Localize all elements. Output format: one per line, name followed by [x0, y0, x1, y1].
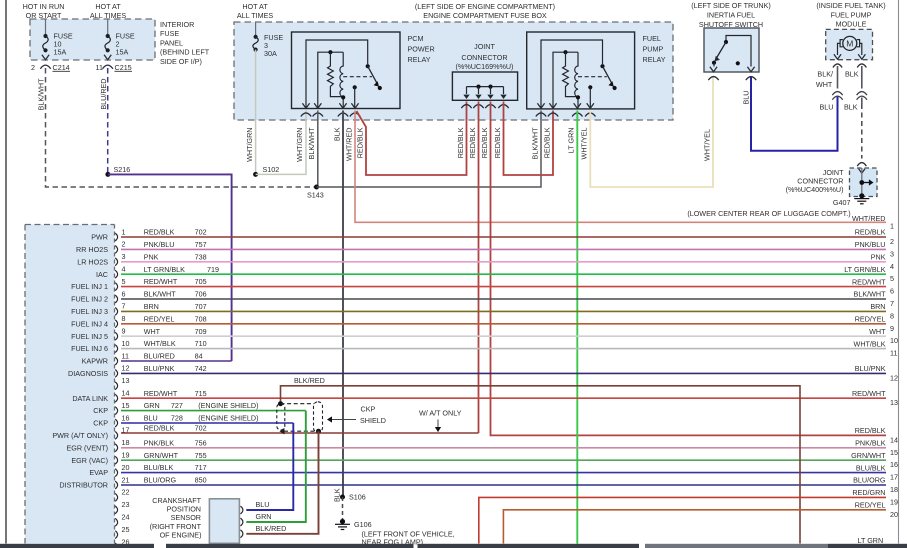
fuse 10 15A — [45, 20, 47, 37]
svg-text:CKP: CKP — [93, 406, 108, 415]
svg-text:CONNECTOR: CONNECTOR — [461, 53, 507, 62]
svg-text:WHT/RED: WHT/RED — [344, 128, 353, 162]
fuel pump motor M — [843, 36, 857, 50]
wire RED/WHT 705 PCM pin 5 — [121, 286, 886, 288]
wire RED/YEL 708 PCM pin 8 — [121, 323, 886, 325]
svg-text:GRN/WHT: GRN/WHT — [851, 451, 886, 460]
svg-text:OR START: OR START — [26, 11, 62, 20]
ground G407 — [859, 193, 864, 198]
svg-text:2: 2 — [890, 237, 894, 246]
wire WHT/GRN fuse 3 to S102 — [255, 50, 257, 175]
svg-text:BLK/RED: BLK/RED — [256, 524, 287, 533]
wire RED/BLK 702 PCM pin 17 — [121, 432, 479, 434]
svg-text:13: 13 — [122, 376, 130, 385]
svg-text:15: 15 — [122, 401, 130, 410]
svg-text:BLU: BLU — [820, 103, 834, 112]
wire GRN 727 PCM pin 15 — [121, 410, 306, 412]
svg-text:RR HO2S: RR HO2S — [76, 245, 108, 254]
svg-text:10: 10 — [122, 339, 130, 348]
svg-text:S216: S216 — [114, 165, 131, 174]
svg-text:17: 17 — [890, 473, 898, 482]
crankshaft position sensor — [209, 499, 239, 544]
wire BLU/RED fuse 2 to S216 — [107, 68, 109, 174]
svg-text:BLK/WHT: BLK/WHT — [37, 78, 46, 111]
svg-text:S143: S143 — [307, 191, 324, 200]
svg-text:FUEL INJ 4: FUEL INJ 4 — [71, 319, 108, 328]
svg-text:3: 3 — [890, 249, 894, 258]
svg-text:(ENGINE SHIELD): (ENGINE SHIELD) — [198, 414, 258, 423]
fuel pump relay — [527, 32, 635, 109]
svg-text:RED/GRN: RED/GRN — [852, 488, 885, 497]
svg-text:8: 8 — [890, 311, 894, 320]
PCM power relay actuator dashed link — [343, 76, 372, 78]
svg-text:DISTRIBUTOR: DISTRIBUTOR — [59, 481, 108, 490]
svg-text:(LOWER CENTER REAR OF LUGGAGE: (LOWER CENTER REAR OF LUGGAGE COMPT.) — [687, 209, 850, 218]
svg-text:ALL TIMES: ALL TIMES — [237, 11, 274, 20]
svg-text:727: 727 — [171, 401, 183, 410]
svg-text:5: 5 — [122, 277, 126, 286]
svg-text:11: 11 — [890, 349, 897, 358]
fuel pump relay pin arrows and connectors — [537, 103, 544, 108]
svg-text:POWER: POWER — [408, 45, 435, 54]
wire BLK fuel pump module right — [861, 66, 863, 89]
svg-text:GRN/WHT: GRN/WHT — [144, 451, 179, 460]
svg-text:LT GRN: LT GRN — [567, 128, 576, 154]
svg-text:BLU/BLK: BLU/BLK — [144, 463, 174, 472]
svg-text:RELAY: RELAY — [408, 55, 431, 64]
svg-text:RED/BLK: RED/BLK — [144, 228, 175, 237]
wire RED/BLK C169 pin 3 to PCM right pin 14 — [491, 102, 887, 436]
page border right — [898, 0, 900, 544]
inertia fuel shutoff switch — [704, 28, 759, 72]
svg-text:MODULE: MODULE — [836, 20, 867, 29]
svg-text:M: M — [846, 39, 853, 49]
connector C214 pin 2 — [42, 55, 49, 60]
svg-text:20: 20 — [890, 510, 898, 519]
svg-text:RED/YEL: RED/YEL — [855, 315, 886, 324]
svg-text:(%%UC169%%U): (%%UC169%%U) — [456, 62, 514, 71]
wire RED/YEL from bottom to right pin 20 — [503, 510, 886, 544]
svg-text:8: 8 — [122, 314, 126, 323]
wire WHT/RED PCM relay pin 4 to PCM pin 1 right side — [355, 111, 886, 223]
svg-text:706: 706 — [195, 290, 207, 299]
inline connector left — [832, 92, 842, 96]
svg-text:RED/WHT: RED/WHT — [144, 389, 178, 398]
svg-text:EVAP: EVAP — [89, 468, 108, 477]
svg-text:11: 11 — [122, 351, 129, 360]
wire BLK/WHT fuse 10 to S143 — [46, 68, 317, 187]
svg-text:4: 4 — [122, 265, 126, 274]
wire BLU/ORG 850 PCM pin 21 — [121, 484, 886, 486]
svg-text:FUSE: FUSE — [160, 29, 179, 38]
PCM power relay pin arrows and connectors — [302, 103, 309, 108]
svg-text:DATA LINK: DATA LINK — [72, 394, 108, 403]
junction pin17 shield drain — [316, 429, 321, 434]
wire BLK/RED sensor shield drain — [246, 431, 318, 534]
svg-text:CKP: CKP — [361, 405, 376, 414]
svg-text:FUEL INJ 6: FUEL INJ 6 — [71, 344, 108, 353]
wire GRN sensor to PCM pin 15 — [246, 411, 305, 522]
svg-text:11: 11 — [96, 63, 103, 72]
svg-text:16: 16 — [122, 413, 130, 422]
svg-text:WHT: WHT — [816, 80, 833, 89]
svg-text:BLK: BLK — [332, 488, 341, 502]
svg-text:PNK/BLK: PNK/BLK — [144, 438, 175, 447]
splice S143 — [314, 185, 319, 190]
svg-text:BLU/RED: BLU/RED — [144, 352, 175, 361]
svg-text:BLK: BLK — [333, 127, 342, 141]
PCM pin brackets and numbers — [115, 233, 117, 241]
wire BLK/WHT 706 PCM pin 6 — [121, 298, 886, 300]
svg-text:RED/YEL: RED/YEL — [144, 314, 175, 323]
wire BLK/WHT PCM relay pin 2 to S143 — [317, 111, 319, 188]
svg-text:(LEFT SIDE OF ENGINE COMPARTME: (LEFT SIDE OF ENGINE COMPARTMENT) — [415, 2, 555, 11]
wire WHT/YEL fuel pump relay pin 4 to inertia switch — [590, 76, 713, 187]
svg-text:RED/WHT: RED/WHT — [144, 277, 178, 286]
svg-text:ALL TIMES: ALL TIMES — [90, 11, 127, 20]
svg-text:BLK/: BLK/ — [817, 70, 833, 79]
svg-text:BLU: BLU — [144, 414, 158, 423]
svg-text:702: 702 — [195, 424, 207, 433]
engine compartment fuse box — [234, 22, 673, 120]
wire WHT 709 PCM pin 9 — [121, 335, 886, 337]
fuel pump module — [826, 29, 873, 59]
svg-text:7: 7 — [122, 302, 126, 311]
svg-text:1: 1 — [890, 222, 894, 231]
svg-text:7: 7 — [890, 299, 894, 308]
fuel pump relay actuator dashed link — [578, 76, 607, 78]
svg-text:WHT: WHT — [144, 327, 161, 336]
svg-text:23: 23 — [122, 500, 130, 509]
svg-text:717: 717 — [195, 463, 207, 472]
svg-text:12: 12 — [890, 373, 898, 382]
svg-text:PNK/BLU: PNK/BLU — [144, 240, 175, 249]
svg-text:BLU/PNK: BLU/PNK — [855, 364, 886, 373]
svg-text:DIAGNOSIS: DIAGNOSIS — [68, 369, 108, 378]
wire RED/BLK 702 PCM pin 1 — [121, 236, 886, 238]
wire LT GRN fuel pump relay pin 3 down to bottom — [576, 111, 578, 544]
svg-text:BLK/WHT: BLK/WHT — [144, 290, 177, 299]
svg-text:CKP: CKP — [93, 419, 108, 428]
wire RED/WHT 715 PCM pin 14 — [121, 397, 886, 399]
svg-text:WHT: WHT — [869, 327, 886, 336]
connector C215 pin 11 — [104, 55, 111, 60]
svg-text:S102: S102 — [263, 165, 280, 174]
svg-text:18: 18 — [890, 485, 898, 494]
svg-text:30A: 30A — [264, 49, 277, 58]
wire RED/BLK C169 pin 4 to fuel pump relay pin 2 — [504, 102, 554, 176]
svg-text:RED/YEL: RED/YEL — [855, 501, 886, 510]
wire PNK/BLU 757 PCM pin 2 — [121, 248, 886, 250]
svg-text:702: 702 — [195, 228, 207, 237]
svg-text:(LEFT SIDE OF TRUNK): (LEFT SIDE OF TRUNK) — [691, 1, 771, 10]
svg-text:BLK/WHT: BLK/WHT — [854, 290, 887, 299]
svg-text:25: 25 — [122, 525, 130, 534]
svg-text:728: 728 — [171, 414, 183, 423]
svg-text:757: 757 — [195, 240, 207, 249]
svg-text:6: 6 — [122, 289, 126, 298]
svg-text:3: 3 — [122, 252, 126, 261]
svg-text:EGR (VAC): EGR (VAC) — [71, 456, 108, 465]
svg-text:707: 707 — [195, 302, 207, 311]
PCM power relay pin 1 internal — [306, 40, 368, 109]
svg-text:LT GRN/BLK: LT GRN/BLK — [144, 265, 185, 274]
svg-text:G407: G407 — [833, 198, 851, 207]
joint connector C169 internal bus — [467, 86, 504, 88]
wire BLU 728 PCM pin 16 — [121, 422, 293, 424]
svg-text:20: 20 — [122, 463, 130, 472]
wire WHT/GRN S102 to PCM power relay pin 1 — [256, 111, 306, 175]
svg-text:PCM: PCM — [408, 34, 424, 43]
svg-text:BLU/ORG: BLU/ORG — [853, 476, 886, 485]
wire BLK/RED shield lead from CKP shield to bottom — [281, 386, 801, 544]
svg-text:WHT/YEL: WHT/YEL — [580, 128, 589, 160]
svg-text:19: 19 — [122, 451, 130, 460]
fuel pump relay pin 1 internal — [541, 40, 603, 109]
svg-text:C215: C215 — [115, 63, 132, 72]
svg-text:RED/BLK: RED/BLK — [855, 228, 886, 237]
svg-text:15: 15 — [890, 448, 898, 457]
svg-text:SIDE OF I/P): SIDE OF I/P) — [160, 57, 202, 66]
splice S102 — [253, 172, 258, 177]
wire BRN 707 PCM pin 7 — [121, 310, 886, 312]
sensor pin brackets — [241, 506, 243, 514]
svg-text:BLK: BLK — [844, 103, 858, 112]
PCM power relay pin 2 internal — [318, 52, 343, 108]
interior fuse panel box — [30, 19, 155, 60]
svg-text:15A: 15A — [116, 48, 129, 57]
wire BLK S106 to ground G106 — [342, 497, 344, 520]
svg-text:FUEL INJ 3: FUEL INJ 3 — [71, 307, 108, 316]
splice S106 — [340, 495, 345, 500]
svg-text:BRN: BRN — [870, 302, 885, 311]
svg-text:(%%UC400%%U): (%%UC400%%U) — [786, 185, 844, 194]
svg-text:84: 84 — [195, 352, 203, 361]
svg-text:JOINT: JOINT — [474, 42, 495, 51]
wire BLK/WHT S143 to fuel pump relay pin 1 — [317, 111, 542, 188]
CKP shield dashed bottom with arrow — [284, 430, 319, 432]
inertia switch internal contacts — [726, 36, 751, 67]
svg-text:FUEL INJ 1: FUEL INJ 1 — [71, 282, 108, 291]
svg-text:WHT/RED: WHT/RED — [852, 214, 886, 223]
svg-text:PUMP: PUMP — [643, 45, 664, 54]
wire WHT/BLK 710 PCM pin 10 — [121, 348, 886, 350]
svg-text:SHIELD: SHIELD — [360, 416, 386, 425]
svg-text:RELAY: RELAY — [643, 55, 666, 64]
svg-text:LR HO2S: LR HO2S — [77, 257, 108, 266]
svg-text:705: 705 — [195, 277, 207, 286]
svg-text:PWR (A/T ONLY): PWR (A/T ONLY) — [52, 431, 108, 440]
fuse 3 30A — [255, 23, 257, 37]
svg-text:15A: 15A — [54, 48, 67, 57]
svg-text:FUEL INJ 2: FUEL INJ 2 — [71, 295, 108, 304]
svg-text:13: 13 — [890, 398, 898, 407]
svg-text:BLU/RED: BLU/RED — [99, 79, 108, 110]
svg-text:BLU/PNK: BLU/PNK — [144, 364, 175, 373]
fuel pump module pin wires — [838, 43, 841, 55]
svg-text:IAC: IAC — [96, 270, 108, 279]
svg-text:16: 16 — [890, 460, 898, 469]
wire BLU/PNK 742 PCM pin 12 — [121, 372, 886, 374]
svg-text:HOT AT: HOT AT — [95, 2, 121, 11]
svg-text:RED/BLK: RED/BLK — [855, 426, 886, 435]
svg-text:PNK: PNK — [144, 252, 159, 261]
svg-text:BLU/ORG: BLU/ORG — [144, 476, 177, 485]
svg-text:EGR (VENT): EGR (VENT) — [66, 443, 108, 452]
PCM power relay coil — [340, 52, 343, 108]
svg-text:RED/BLK: RED/BLK — [456, 127, 465, 158]
fuel pump relay coil — [575, 52, 578, 108]
svg-text:710: 710 — [195, 339, 207, 348]
wire BLK/WHT fuel pump module left — [837, 66, 839, 89]
svg-text:GRN: GRN — [256, 512, 272, 521]
svg-text:850: 850 — [195, 476, 207, 485]
svg-text:FUEL PUMP: FUEL PUMP — [831, 11, 872, 20]
bottom window bar — [0, 544, 154, 548]
svg-text:5: 5 — [890, 274, 894, 283]
svg-text:G106: G106 — [354, 520, 372, 529]
wire RED/BLK C169 pin 2 down to PCM pin 17 row — [478, 102, 480, 434]
wire BLU sensor to PCM pin 16 — [246, 423, 293, 510]
svg-text:FUEL INJ 5: FUEL INJ 5 — [71, 332, 108, 341]
PCM power relay — [292, 32, 401, 109]
wire BLK PCM relay pin 3 to S106 — [342, 111, 344, 498]
svg-text:719: 719 — [207, 265, 219, 274]
svg-text:756: 756 — [195, 438, 207, 447]
svg-text:1: 1 — [122, 227, 126, 236]
svg-text:PNK: PNK — [871, 253, 886, 262]
svg-text:709: 709 — [195, 327, 207, 336]
fuel pump relay pin 2 internal — [553, 52, 578, 108]
svg-text:SENSOR: SENSOR — [171, 513, 201, 522]
fuel pump relay switch — [600, 64, 604, 68]
svg-text:BLK/RED: BLK/RED — [294, 376, 325, 385]
svg-text:19: 19 — [890, 497, 898, 506]
svg-text:WHT/GRN: WHT/GRN — [245, 127, 254, 161]
svg-text:ENGINE COMPARTMENT FUSE BOX: ENGINE COMPARTMENT FUSE BOX — [423, 11, 547, 20]
svg-text:OF ENGINE): OF ENGINE) — [160, 531, 202, 540]
wire RED/BLK PCM relay to joint connector C169 pin 1 — [357, 102, 467, 176]
svg-text:708: 708 — [195, 314, 207, 323]
CKP shield dashed right capsule — [314, 402, 323, 433]
svg-text:HOT IN RUN: HOT IN RUN — [23, 2, 65, 11]
svg-text:PNK/BLK: PNK/BLK — [855, 439, 886, 448]
wire BLU/BLK 717 PCM pin 20 — [121, 472, 886, 474]
svg-text:PANEL: PANEL — [160, 38, 183, 47]
svg-text:RED/BLK: RED/BLK — [493, 127, 502, 158]
svg-text:RED/BLK: RED/BLK — [144, 424, 175, 433]
svg-text:24: 24 — [122, 513, 130, 522]
svg-text:(BEHIND LEFT: (BEHIND LEFT — [160, 48, 210, 57]
splice S216 — [105, 172, 110, 177]
ground G106 — [340, 519, 345, 524]
CKP shield dashed drain — [278, 401, 283, 406]
svg-text:WHT/GRN: WHT/GRN — [295, 128, 304, 162]
page border left — [5, 0, 7, 544]
svg-text:14: 14 — [890, 435, 898, 444]
svg-text:BLU: BLU — [741, 91, 750, 105]
svg-text:18: 18 — [122, 438, 130, 447]
fuel pump relay pin 4 internal — [588, 85, 592, 89]
svg-text:2: 2 — [122, 240, 126, 249]
PCM power relay pin 4 internal — [353, 85, 357, 89]
svg-text:INERTIA FUEL: INERTIA FUEL — [707, 11, 755, 20]
svg-text:BRN: BRN — [144, 302, 159, 311]
svg-text:HOT AT: HOT AT — [242, 2, 268, 11]
svg-text:BLK/WHT: BLK/WHT — [307, 127, 316, 160]
svg-text:9: 9 — [122, 327, 126, 336]
joint connector C400 — [850, 168, 878, 197]
fuel pump relay resistor — [563, 52, 578, 96]
svg-text:W/ A/T ONLY: W/ A/T ONLY — [419, 409, 462, 418]
svg-text:KAPWR: KAPWR — [82, 357, 108, 366]
svg-text:BLK: BLK — [845, 70, 859, 79]
svg-text:WHT/BLK: WHT/BLK — [144, 339, 176, 348]
PCM power relay switch — [366, 64, 370, 68]
svg-text:BLK/WHT: BLK/WHT — [530, 127, 539, 160]
svg-text:SHUTOFF SWITCH: SHUTOFF SWITCH — [699, 20, 763, 29]
svg-text:14: 14 — [122, 389, 130, 398]
svg-text:715: 715 — [195, 389, 207, 398]
svg-text:21: 21 — [122, 475, 130, 484]
svg-text:(INSIDE FUEL TANK): (INSIDE FUEL TANK) — [816, 1, 885, 10]
fuse 2 15A — [107, 20, 109, 37]
svg-text:RED/WHT: RED/WHT — [852, 389, 886, 398]
svg-text:738: 738 — [195, 252, 207, 261]
svg-text:6: 6 — [890, 287, 894, 296]
svg-text:RED/BLK: RED/BLK — [480, 127, 489, 158]
svg-text:4: 4 — [890, 262, 894, 271]
wire BLU/RED S216 to PCM pin 11 — [108, 174, 232, 361]
wire PNK 738 PCM pin 3 — [121, 261, 886, 263]
wire BLK module to joint connector C400 — [861, 98, 863, 105]
wire LT GRN/BLK 719 PCM pin 4 — [121, 273, 886, 275]
svg-text:S106: S106 — [349, 493, 366, 502]
svg-text:742: 742 — [195, 364, 207, 373]
svg-text:C214: C214 — [53, 63, 70, 72]
svg-text:2: 2 — [31, 63, 35, 72]
svg-text:755: 755 — [195, 451, 207, 460]
inertia switch pin arrows and connectors — [710, 67, 717, 72]
svg-text:12: 12 — [122, 364, 130, 373]
svg-text:RED/BLK: RED/BLK — [468, 127, 477, 158]
svg-text:GRN: GRN — [144, 401, 160, 410]
svg-text:9: 9 — [890, 324, 894, 333]
PCM power relay resistor — [328, 52, 344, 96]
wire RED/GRN from bottom to right pin 19 — [479, 497, 886, 543]
wire BLU/RED 84 PCM pin 11 — [121, 360, 232, 362]
wire PNK/BLK 756 PCM pin 18 — [121, 447, 886, 449]
svg-text:(ENGINE SHIELD): (ENGINE SHIELD) — [198, 401, 258, 410]
svg-text:RED/WHT: RED/WHT — [852, 277, 886, 286]
svg-text:RED/BLK: RED/BLK — [542, 127, 551, 158]
svg-text:RED/BLK: RED/BLK — [356, 127, 365, 158]
svg-text:PNK/BLU: PNK/BLU — [855, 240, 886, 249]
svg-text:PWR: PWR — [91, 233, 108, 242]
wire GRN/WHT 755 PCM pin 19 — [121, 459, 886, 461]
wire BLU inertia switch to fuel pump module — [751, 77, 838, 151]
svg-text:WHT/BLK: WHT/BLK — [854, 339, 886, 348]
joint connector C169 pin connectors — [461, 105, 471, 109]
CKP shield dashed left capsule — [277, 404, 285, 431]
svg-text:BLU: BLU — [256, 500, 270, 509]
svg-text:22: 22 — [122, 488, 130, 497]
joint connector C169 — [452, 72, 517, 100]
inline connector right — [857, 92, 867, 96]
svg-text:BLU/BLK: BLU/BLK — [856, 463, 886, 472]
PCM connector block — [25, 225, 115, 544]
svg-text:LT GRN: LT GRN — [858, 536, 884, 545]
